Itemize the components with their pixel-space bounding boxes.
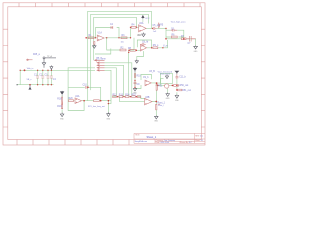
wire stage4 output [147,40,168,48]
ground G14 stage4 [135,60,138,64]
resistor R8 stage4 input [130,49,136,51]
wire right cluster box [160,73,172,83]
eq resistor R16 [137,96,141,98]
svg-text:R20: R20 [69,98,74,100]
svg-text:R51_out: R51_out [182,89,191,92]
svg-text:R19: R19 [57,106,62,108]
capacitor C4 stage1 feedback [111,26,113,29]
svg-text:EasyEDA.com: EasyEDA.com [135,140,148,143]
wire stage4 gnd stem [137,51,144,59]
svg-text:Sheet: 1/1: Sheet: 1/1 [195,139,203,142]
capacitor C1 left [36,76,39,78]
wire stage2 input [136,26,138,28]
resistor R21 lower-left output [94,100,100,102]
resistor R4 stage2 input [131,26,136,28]
right ticks [201,29,205,127]
svg-text:U1A: U1A [98,32,103,35]
ground G3 stage1 [93,45,97,49]
resistor R23 stage1 gnd leg [94,42,95,45]
wire U3A output to right [157,78,164,83]
ground G11 under buzzer [166,93,170,97]
wire eq row links [113,96,141,98]
power flag VCC3 right cluster [175,71,179,74]
resistor R6 stage3 [171,36,177,38]
svg-text:Date: 2023-12-06: Date: 2023-12-06 [156,141,169,144]
eq resistor R12 [113,96,117,98]
wire stage1 output row [105,37,131,39]
power flag VCC1 stage2 [142,16,144,19]
svg-text:REV: 1.0: REV: 1.0 [195,135,203,137]
bottom ticks [17,140,129,146]
wire pin4 right-down [105,68,117,97]
wire pin2 right-down [105,63,132,97]
wire stage1 input row [86,37,97,39]
resistor R3 stage1 output [121,37,127,39]
wire cap leads left cluster [38,70,52,84]
svg-text:C8_fb: C8_fb [142,41,149,43]
svg-text:C10: C10 [83,84,88,86]
svg-text:Vout_mid_band: Vout_mid_band [158,70,173,73]
wire stage1 lower loop [107,38,134,50]
wire bus loop outer (pin area up over to right stage) [88,11,152,100]
ground G7 divider [60,113,64,117]
svg-text:R10: R10 [137,76,142,78]
left ticks [3,29,8,127]
svg-text:Drawn By: JLC: Drawn By: JLC [181,141,193,144]
svg-text:R9_o: R9_o [153,45,159,47]
wire R11 down to U3B node [156,83,158,101]
capacitor C2 left [41,76,44,78]
top ticks [19,3,200,7]
wire stage4 input riser [128,50,130,96]
capacitor C3 left [47,76,50,78]
ground G4 stage2 [142,33,146,37]
op-amp U3B [145,98,153,105]
capacitor C10 lower-left feedback [86,86,87,89]
connector pin arrows J1 [95,59,105,61]
wire right box to comp [159,84,161,86]
title block frame [134,133,205,143]
testpoint P1 left [27,59,33,61]
capacitor C8 stage4 feedback [140,43,145,46]
resistor R20 lower-left input [69,100,74,102]
ground G1 below testpoint [42,59,46,68]
sheet border frame [3,3,205,145]
capacitor C5 stage2 output [153,27,157,30]
svg-text:U2A: U2A [139,22,144,25]
svg-text:R9_fb: R9_fb [97,57,103,59]
capacitor C15 left [50,76,53,78]
svg-text:V_m: V_m [163,46,168,48]
wire lower-left bottom loop [68,101,84,111]
wire stage4 input row [136,49,140,51]
net stub right bottom [158,103,160,105]
op-amp U2A [139,25,147,32]
svg-text:U3B: U3B [145,97,150,99]
wire left rails bottom [17,84,54,86]
wire right cap chain [176,79,178,94]
eq resistor R14 [125,96,129,98]
resistor R22 right row [174,85,179,87]
resistor R5 small vert [158,23,159,29]
ground G13 right chain [175,94,179,98]
wire stage3 loop box [166,28,184,38]
resistor R7 stage3 out [181,38,186,40]
flag F1 divider top [60,91,63,96]
svg-text:Vout_l: Vout_l [158,104,164,107]
resistor R1 stage1 input [88,37,94,39]
power arrow A2 below rail [29,85,31,90]
divider resistor R18 [62,97,63,102]
wire stage4 feedback box [137,40,151,48]
svg-text:R21_low_freq_out: R21_low_freq_out [88,105,105,108]
ground G9 opamp5 out [155,116,159,120]
svg-text:TITLE:: TITLE: [135,135,141,137]
wire comp gnd stem [167,88,169,92]
eq resistor R15 [132,96,136,98]
svg-text:R14: R14 [125,94,130,96]
wire pin3 right-down [105,65,124,96]
svg-text:C11_b: C11_b [179,76,186,78]
buzzer LS1 right cluster [165,84,169,88]
wire bus loop middle [91,14,149,90]
ground G6 mid chain [133,88,136,91]
capacitor C6 stage3 [171,29,178,32]
capacitor C7 stage3 out [186,36,195,42]
wire pin5 left rail [20,70,95,84]
divider resistor R19 [62,104,63,109]
svg-text:R18: R18 [57,99,62,101]
wire opamp5 output [152,102,156,116]
svg-text:U4A: U4A [75,95,80,98]
arrow A1 rail left end [17,84,18,86]
svg-text:C9_b: C9_b [143,77,149,79]
ground G10 in right box [165,75,168,79]
wire stage2 output [146,27,166,29]
capacitor C9 mid chain [134,81,137,88]
svg-text:U3_B: U3_B [149,71,155,73]
ground G5 stage3 out [194,46,198,50]
wire lower-left bus drop [87,85,89,87]
wire eq to opamp5 [120,97,145,102]
wire mid bias chain [134,73,136,89]
ground G8 lower-left out [107,112,111,116]
wire pin4 left down to lower opamp [68,68,95,111]
wire stage1 to stage2 riser [130,27,132,38]
op-amp U1A [97,35,104,41]
wire right cluster row [170,84,180,86]
resistor R2 stage1 lower loop [120,49,126,51]
svg-text:R25_a: R25_a [33,54,40,56]
wire right cluster input [156,84,164,86]
testpoint TP1 dark [45,57,56,59]
resistor R10 mid chain [134,74,135,78]
wire divider [61,96,63,113]
svg-text:R50_out: R50_out [180,84,189,87]
wire stage3 output row [166,39,196,46]
svg-text:R13: R13 [119,94,124,96]
op-amp U2B [140,45,146,52]
wire bus loop inner [94,17,137,60]
op-amp U4A lower-left [75,98,82,104]
svg-text:R12: R12 [113,94,118,96]
eq resistor R13 [119,96,123,98]
ground G2 small at cap51 [50,65,53,70]
svg-text:C5_out: C5_out [153,24,161,27]
capacitor C11 right top [176,74,179,79]
resistor R9 stage4 out [153,47,158,49]
resistor R11 mid right vert [156,84,157,90]
wire stage4 feed stub [95,49,111,55]
wire lower-left output [82,101,111,113]
wire lower-left opamp input [68,100,74,102]
resistor R17 below output [156,104,157,110]
wire stage1 feedback loop top [96,28,120,38]
op-amp U3A mid [145,80,151,86]
svg-text:Sheet_1: Sheet_1 [147,135,157,139]
svg-text:Vbb_in: Vbb_in [27,68,34,70]
svg-text:VCC: VCC [145,18,150,20]
wire pin5 drop join [105,70,112,103]
svg-text:Vout_high_pass: Vout_high_pass [171,21,186,24]
svg-text:TP_A: TP_A [47,55,52,58]
wire mid opamp loop [135,75,157,89]
svg-text:10k: 10k [121,41,124,43]
wire lower-left feedback [68,87,101,100]
power flag VCC2 mid chain [133,67,136,72]
resistor R24 right row2 [178,89,182,91]
